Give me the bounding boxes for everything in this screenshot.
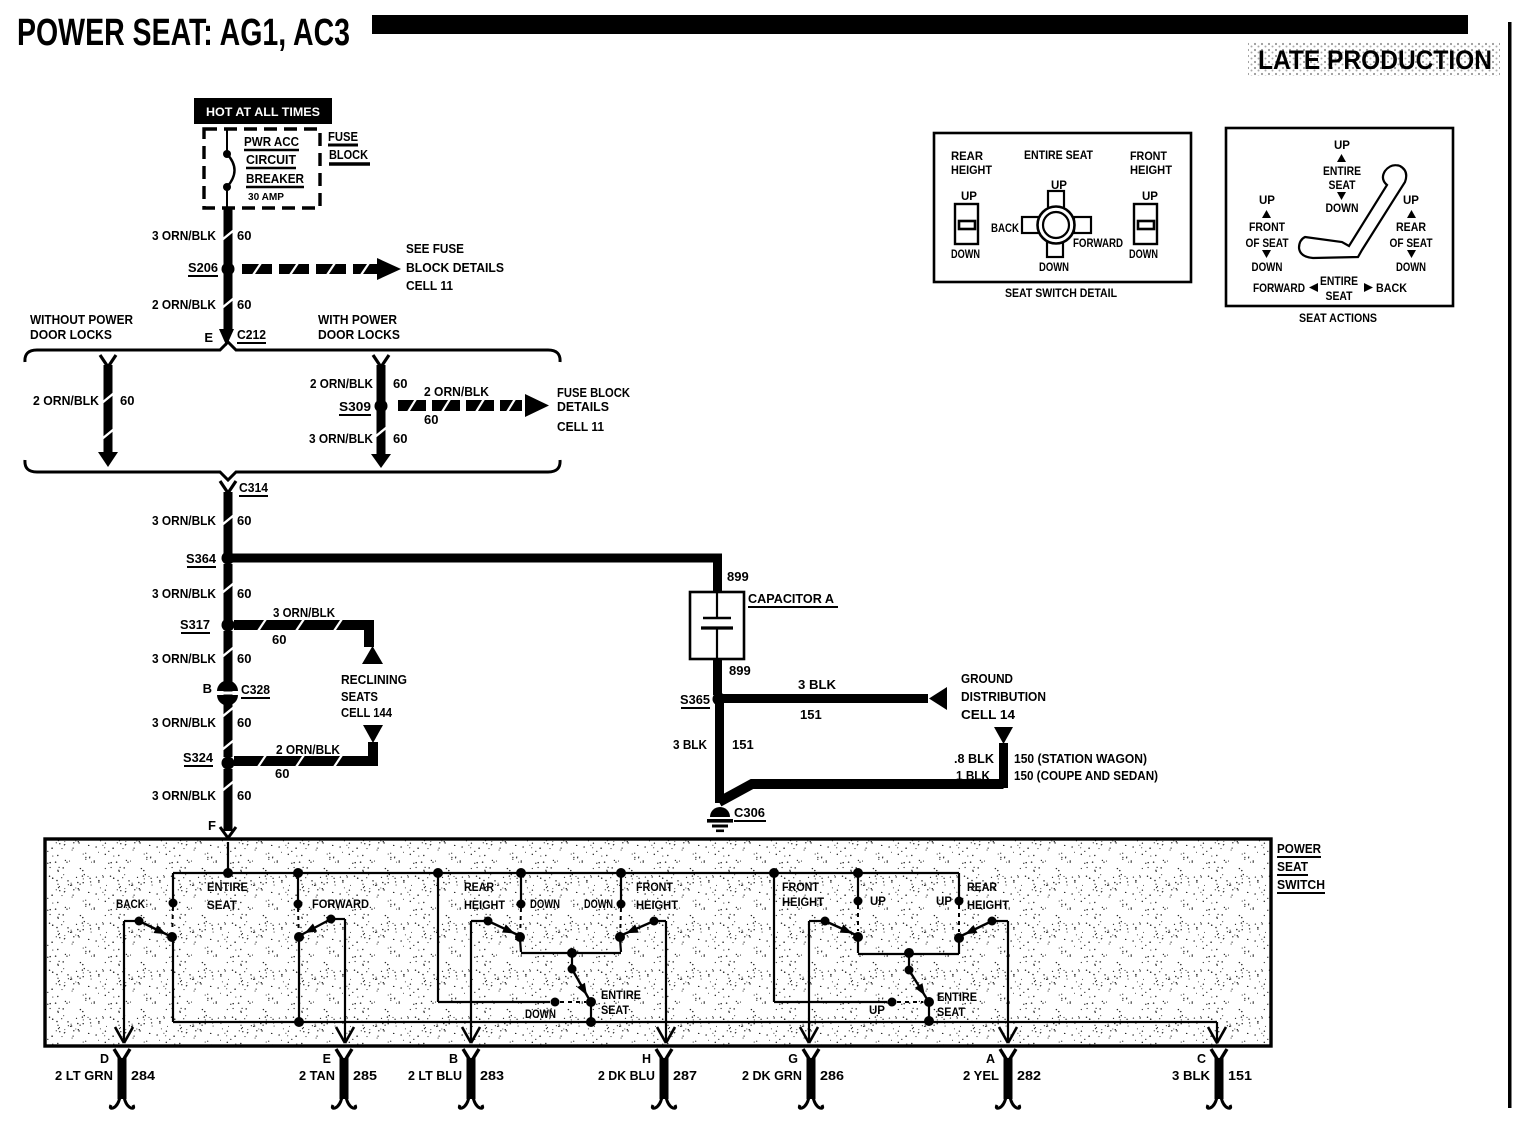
off-page arrow down: ground branch .8 BLK / 1 BLK 150 [719, 727, 1158, 802]
svg-text:SEAT SWITCH DETAIL: SEAT SWITCH DETAIL [1005, 286, 1117, 300]
svg-text:285: 285 [353, 1069, 377, 1083]
svg-text:3 ORN/BLK: 3 ORN/BLK [152, 788, 217, 803]
svg-text:POWER: POWER [1277, 841, 1322, 856]
svg-text:150 (STATION WAGON): 150 (STATION WAGON) [1014, 751, 1147, 766]
svg-text:3 ORN/BLK: 3 ORN/BLK [273, 605, 336, 620]
seat actions: forward / back [1253, 276, 1408, 303]
svg-text:DOWN: DOWN [584, 899, 613, 911]
svg-text:282: 282 [1017, 1069, 1041, 1083]
splice S324 [183, 750, 235, 770]
svg-text:DOWN: DOWN [1129, 249, 1158, 261]
svg-text:OF SEAT: OF SEAT [1390, 238, 1433, 250]
svg-text:3 ORN/BLK: 3 ORN/BLK [152, 228, 217, 243]
svg-text:3 ORN/BLK: 3 ORN/BLK [152, 651, 217, 666]
svg-text:ENTIRE: ENTIRE [937, 992, 977, 1004]
svg-text:60: 60 [237, 586, 251, 601]
label: without power door locks [30, 312, 134, 342]
svg-text:SEAT: SEAT [1277, 859, 1308, 874]
svg-text:60: 60 [237, 788, 251, 803]
svg-text:CELL 144: CELL 144 [341, 705, 393, 720]
rear height switch [464, 873, 560, 952]
svg-text:151: 151 [732, 737, 754, 752]
svg-text:BREAKER: BREAKER [246, 171, 305, 186]
ground C306 [707, 805, 766, 832]
svg-text:S324: S324 [183, 750, 214, 765]
wire: S324 to switch pin F, 3 ORN/BLK 60 [152, 769, 251, 831]
svg-text:HEIGHT: HEIGHT [951, 163, 993, 177]
svg-text:ENTIRE: ENTIRE [207, 882, 248, 894]
svg-text:BLOCK DETAILS: BLOCK DETAILS [406, 260, 504, 275]
svg-text:60: 60 [237, 651, 251, 666]
svg-text:SEAT: SEAT [207, 900, 237, 912]
svg-text:C306: C306 [734, 805, 765, 820]
svg-text:DETAILS: DETAILS [557, 399, 609, 414]
svg-text:151: 151 [1228, 1069, 1252, 1083]
svg-text:.8 BLK: .8 BLK [954, 751, 995, 766]
svg-text:DOWN: DOWN [1252, 262, 1283, 274]
fuse block label [328, 129, 370, 164]
svg-text:1 BLK: 1 BLK [956, 768, 991, 783]
svg-text:FRONT: FRONT [1130, 149, 1168, 163]
svg-text:DOOR LOCKS: DOOR LOCKS [30, 327, 112, 342]
svg-text:UP: UP [1259, 195, 1275, 207]
svg-text:S206: S206 [188, 260, 218, 275]
forward switch [294, 873, 370, 942]
wire: front height up contact to pin G [808, 921, 810, 1042]
rear height rocker [951, 191, 980, 261]
hatched off-page arrow: fuse block details cell 11 (S309) [398, 384, 631, 434]
svg-text:C: C [1197, 1052, 1206, 1066]
svg-text:SEATS: SEATS [341, 689, 378, 704]
svg-text:BLOCK: BLOCK [329, 147, 369, 162]
splice S206 [188, 260, 235, 276]
svg-text:899: 899 [729, 663, 751, 678]
wire: breaker to S206, 3 ORN/BLK 60 [152, 209, 251, 268]
front height switch [584, 873, 678, 952]
connector pin A: 2 YEL 282 [963, 1049, 1041, 1108]
svg-text:2 YEL: 2 YEL [963, 1069, 999, 1083]
svg-text:2 LT BLU: 2 LT BLU [408, 1069, 462, 1083]
wire: back pivot to bottom rail [172, 939, 174, 1022]
wire: rear height up contact to pin A [1007, 921, 1009, 1042]
connector pin G: 2 DK GRN 286 [742, 1049, 844, 1108]
svg-text:HEIGHT: HEIGHT [464, 900, 505, 912]
svg-text:CELL 11: CELL 11 [406, 278, 453, 293]
svg-text:286: 286 [820, 1069, 844, 1083]
bus wire (top feed rail) [173, 872, 959, 874]
wire: F entry to bus [227, 842, 229, 873]
bus junctions [223, 868, 863, 878]
svg-text:PWR ACC: PWR ACC [244, 134, 300, 149]
svg-text:2 ORN/BLK: 2 ORN/BLK [424, 384, 490, 399]
svg-text:3 ORN/BLK: 3 ORN/BLK [152, 586, 217, 601]
svg-text:HEIGHT: HEIGHT [967, 900, 1009, 912]
svg-text:60: 60 [424, 412, 438, 427]
connector C212 pin E [204, 327, 266, 346]
svg-text:FRONT: FRONT [1249, 222, 1285, 234]
connector pin C: 3 BLK 151 [1172, 1049, 1252, 1108]
svg-text:CELL 14: CELL 14 [961, 707, 1016, 722]
caption: seat switch detail [1005, 286, 1117, 300]
wire: front height contact to pin H [665, 921, 667, 1042]
connector pin E: 2 TAN 285 [299, 1049, 377, 1108]
entire seat knob [991, 180, 1123, 274]
wire: without-locks branch 2 ORN/BLK 60 [33, 355, 134, 467]
svg-text:HEIGHT: HEIGHT [782, 897, 824, 909]
hatched off-page arrow: see fuse block details cell 11 [242, 241, 504, 293]
svg-text:E: E [323, 1052, 331, 1066]
svg-text:ENTIRE: ENTIRE [601, 990, 641, 1002]
svg-text:A: A [986, 1052, 995, 1066]
svg-text:ENTIRE: ENTIRE [1323, 166, 1361, 178]
svg-text:ENTIRE SEAT: ENTIRE SEAT [1024, 148, 1094, 162]
seat actions box [1226, 128, 1453, 306]
svg-text:C328: C328 [241, 682, 270, 697]
svg-text:HEIGHT: HEIGHT [636, 900, 678, 912]
wire: S206 to C212, 2 ORN/BLK 60 [152, 274, 251, 330]
connector pin D: 2 LT GRN 284 [55, 1049, 155, 1108]
svg-text:60: 60 [237, 297, 251, 312]
wire: S317 to C328, 3 ORN/BLK 60 [152, 631, 251, 757]
svg-text:60: 60 [393, 376, 407, 391]
svg-text:2 DK BLU: 2 DK BLU [598, 1069, 655, 1083]
svg-text:WITH POWER: WITH POWER [318, 312, 398, 327]
splice S317 [180, 617, 235, 633]
svg-text:OF SEAT: OF SEAT [1246, 238, 1289, 250]
svg-text:DOWN: DOWN [530, 899, 560, 911]
page right border line [1508, 22, 1512, 1108]
svg-text:F: F [208, 818, 216, 833]
pin exit arrowheads [115, 1027, 1226, 1043]
front height up switch (right group) [782, 873, 886, 953]
seat actions: rear of seat up/down [1390, 195, 1433, 274]
connector pin H: 2 DK BLU 287 [598, 1049, 697, 1108]
svg-text:H: H [642, 1052, 651, 1066]
seat actions: front of seat up/down [1246, 195, 1289, 274]
svg-text:30 AMP: 30 AMP [248, 191, 284, 203]
wire: C314 to S364, 3 ORN/BLK 60 [152, 492, 251, 558]
wire: capacitor to S365, circuit 899 [713, 659, 751, 695]
svg-text:283: 283 [480, 1069, 504, 1083]
wire: S364 feed to capacitor, circuit 899 [228, 554, 749, 593]
svg-text:DOWN: DOWN [525, 1009, 556, 1021]
caption: seat actions [1299, 311, 1377, 325]
back switch [116, 873, 178, 942]
wire + off-page arrow: ground distribution cell 14, 3 BLK 151 [719, 671, 1046, 722]
svg-text:FORWARD: FORWARD [1253, 283, 1305, 295]
breaker value labels [244, 134, 305, 203]
svg-text:150 (COUPE AND SEDAN): 150 (COUPE AND SEDAN) [1014, 768, 1158, 783]
power seat switch label [1277, 841, 1325, 893]
label: with power door locks [318, 312, 400, 342]
bottom rail to pin C [173, 1022, 1217, 1042]
svg-text:FORWARD: FORWARD [312, 899, 369, 911]
node: HOT AT ALL TIMES [194, 98, 332, 124]
seat actions: entire seat up/down [1323, 140, 1361, 215]
svg-text:2 TAN: 2 TAN [299, 1069, 335, 1083]
svg-text:DOOR LOCKS: DOOR LOCKS [318, 327, 400, 342]
svg-text:REAR: REAR [951, 149, 983, 163]
splice S364 [186, 551, 235, 567]
svg-text:60: 60 [237, 513, 251, 528]
svg-text:DOWN: DOWN [1396, 262, 1426, 274]
svg-text:UP: UP [1142, 191, 1158, 203]
svg-text:287: 287 [673, 1069, 697, 1083]
svg-text:S365: S365 [680, 692, 710, 707]
wire: C328 to S324, 3 ORN/BLK 60 [152, 708, 251, 750]
svg-text:S317: S317 [180, 617, 210, 632]
wire: back contact to pin D [123, 921, 125, 1042]
svg-text:RECLINING: RECLINING [341, 672, 407, 687]
svg-text:60: 60 [393, 431, 407, 446]
svg-text:DOWN: DOWN [951, 249, 980, 261]
off-page arrow down + hatched wire to S324, 2 ORN/BLK 60 [234, 725, 383, 781]
svg-text:SEAT: SEAT [1326, 291, 1353, 303]
LATE PRODUCTION stamp [1248, 42, 1500, 76]
svg-text:WITHOUT POWER: WITHOUT POWER [30, 312, 134, 327]
svg-text:ENTIRE: ENTIRE [1320, 276, 1358, 288]
svg-text:2 LT GRN: 2 LT GRN [55, 1069, 113, 1083]
svg-text:UP: UP [1403, 195, 1419, 207]
svg-text:3 ORN/BLK: 3 ORN/BLK [152, 513, 217, 528]
svg-text:FUSE: FUSE [328, 129, 358, 144]
option brace top [25, 342, 560, 362]
wire: forward contact to pin E [344, 919, 346, 1042]
svg-text:SEE FUSE: SEE FUSE [406, 241, 464, 256]
wire: with-locks branch lower 3 ORN/BLK 60 [309, 411, 407, 468]
splice S309 [339, 399, 388, 415]
svg-text:REAR: REAR [464, 882, 495, 894]
hatched wire: S317 to reclining seats, 3 ORN/BLK 60 [234, 605, 374, 647]
svg-text:UP: UP [869, 1005, 885, 1017]
svg-text:60: 60 [237, 715, 251, 730]
svg-text:REAR: REAR [967, 882, 998, 894]
svg-text:UP: UP [961, 191, 977, 203]
connector C328 pin B [203, 681, 270, 706]
svg-text:2 ORN/BLK: 2 ORN/BLK [33, 393, 100, 408]
svg-text:DOWN: DOWN [1326, 203, 1359, 215]
option brace bottom [25, 460, 560, 480]
seat switch detail box [934, 133, 1191, 282]
svg-text:D: D [100, 1052, 109, 1066]
circuit breaker: PWR ACC CIRCUIT BREAKER 30 AMP (fuse block, dashed) [204, 129, 320, 209]
svg-text:UP: UP [1334, 140, 1350, 152]
rear height up switch [936, 873, 1009, 954]
svg-text:S364: S364 [186, 551, 217, 566]
svg-text:B: B [203, 681, 212, 696]
svg-text:CELL 11: CELL 11 [557, 419, 604, 434]
header bar [372, 15, 1468, 34]
svg-text:SEAT: SEAT [1329, 180, 1356, 192]
svg-text:284: 284 [131, 1069, 155, 1083]
title: POWER SEAT AG1 AC3 [17, 12, 350, 54]
svg-text:3 ORN/BLK: 3 ORN/BLK [152, 715, 217, 730]
svg-text:FUSE BLOCK: FUSE BLOCK [557, 385, 631, 400]
svg-text:FRONT: FRONT [782, 882, 819, 894]
svg-text:CIRCUIT: CIRCUIT [246, 152, 296, 167]
svg-text:FRONT: FRONT [636, 882, 673, 894]
label: entire seat (left) [207, 882, 248, 912]
capacitor A [690, 592, 744, 659]
wire: S365 down to C306, 3 BLK 151 [673, 703, 754, 803]
svg-text:151: 151 [800, 707, 822, 722]
front height rocker [1129, 191, 1158, 261]
svg-text:C314: C314 [239, 480, 269, 495]
capacitor A label [748, 591, 838, 607]
svg-text:GROUND: GROUND [961, 671, 1013, 686]
svg-text:3 ORN/BLK: 3 ORN/BLK [309, 431, 374, 446]
svg-text:BACK: BACK [991, 223, 1020, 235]
svg-text:2 ORN/BLK: 2 ORN/BLK [310, 376, 374, 391]
svg-text:60: 60 [120, 393, 134, 408]
svg-text:SWITCH: SWITCH [1277, 877, 1325, 892]
svg-text:UP: UP [870, 896, 886, 908]
svg-text:60: 60 [237, 228, 251, 243]
entire seat down switch [438, 873, 641, 1027]
svg-text:2 ORN/BLK: 2 ORN/BLK [276, 742, 341, 757]
svg-text:SEAT ACTIONS: SEAT ACTIONS [1299, 311, 1377, 325]
svg-text:LATE PRODUCTION: LATE PRODUCTION [1258, 45, 1492, 75]
svg-text:899: 899 [727, 569, 749, 584]
svg-text:UP: UP [936, 896, 952, 908]
off-page arrow up: reclining seats cell 144 [341, 646, 407, 720]
svg-text:B: B [449, 1052, 458, 1066]
svg-text:2 ORN/BLK: 2 ORN/BLK [152, 297, 217, 312]
seat profile drawing [1299, 165, 1406, 258]
svg-text:HOT AT ALL TIMES: HOT AT ALL TIMES [206, 105, 320, 119]
svg-text:60: 60 [275, 766, 289, 781]
svg-text:G: G [788, 1052, 798, 1066]
svg-text:C212: C212 [237, 327, 266, 342]
wire: S364 to S317, 3 ORN/BLK 60 [152, 564, 251, 625]
svg-text:SEAT: SEAT [601, 1005, 629, 1017]
svg-text:HEIGHT: HEIGHT [1130, 163, 1173, 177]
splice S365 [680, 692, 726, 708]
svg-text:POWER SEAT: AG1, AC3: POWER SEAT: AG1, AC3 [17, 12, 350, 54]
wire: rear height contact to pin B [470, 921, 472, 1042]
svg-text:60: 60 [272, 632, 286, 647]
svg-text:BACK: BACK [1376, 283, 1408, 295]
wire: with-locks branch upper 2 ORN/BLK 60 [310, 355, 407, 405]
svg-text:2 DK GRN: 2 DK GRN [742, 1069, 802, 1083]
svg-text:E: E [204, 330, 213, 345]
entire seat up switch [774, 873, 977, 1026]
connector C314 [220, 480, 269, 496]
svg-text:DOWN: DOWN [1039, 262, 1069, 274]
power seat switch housing [45, 839, 1271, 1046]
switch pin F entry [208, 818, 236, 838]
svg-text:DISTRIBUTION: DISTRIBUTION [961, 689, 1046, 704]
svg-text:FORWARD: FORWARD [1073, 238, 1123, 250]
svg-text:S309: S309 [339, 399, 371, 414]
svg-text:CAPACITOR A: CAPACITOR A [748, 591, 835, 606]
svg-text:3 BLK: 3 BLK [673, 737, 708, 752]
svg-text:BACK: BACK [116, 899, 146, 911]
svg-text:REAR: REAR [1396, 222, 1427, 234]
svg-text:SEAT: SEAT [937, 1007, 965, 1019]
wire: forward pivot to bottom rail [294, 939, 304, 1027]
svg-text:3 BLK: 3 BLK [798, 677, 837, 692]
connector pin B: 2 LT BLU 283 [408, 1049, 504, 1108]
svg-text:3 BLK: 3 BLK [1172, 1069, 1210, 1083]
